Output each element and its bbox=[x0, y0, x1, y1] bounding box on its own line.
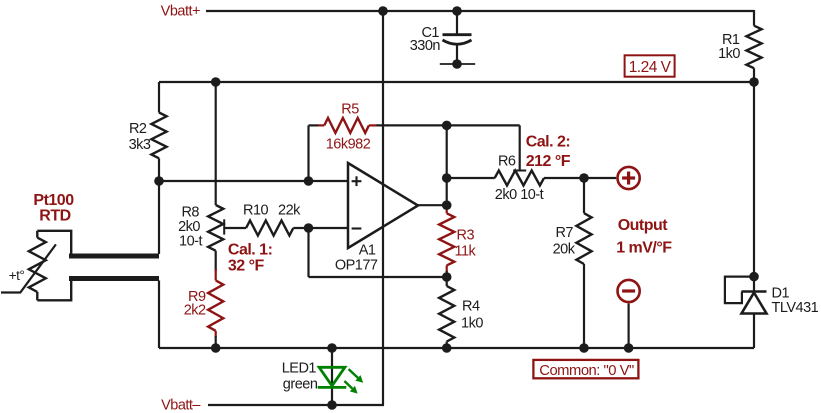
svg-text:1 mV/°F: 1 mV/°F bbox=[616, 239, 672, 256]
svg-text:32 °F: 32 °F bbox=[228, 257, 265, 274]
svg-text:R3: R3 bbox=[457, 228, 475, 244]
svg-text:3k3: 3k3 bbox=[129, 137, 151, 153]
svg-text:10-t: 10-t bbox=[179, 234, 202, 250]
svg-text:1k0: 1k0 bbox=[461, 316, 483, 332]
svg-text:Vbatt+: Vbatt+ bbox=[161, 4, 200, 20]
svg-text:R2: R2 bbox=[129, 121, 147, 137]
svg-text:Cal. 1:: Cal. 1: bbox=[228, 241, 273, 258]
svg-text:RTD: RTD bbox=[39, 208, 70, 225]
svg-text:Cal. 2:: Cal. 2: bbox=[526, 133, 571, 150]
svg-text:1.24 V: 1.24 V bbox=[629, 59, 672, 76]
svg-text:22k: 22k bbox=[278, 203, 301, 219]
svg-text:R6: R6 bbox=[498, 153, 516, 169]
svg-text:16k982: 16k982 bbox=[326, 137, 371, 153]
svg-text:2k2: 2k2 bbox=[184, 303, 206, 319]
svg-text:2k0 10-t: 2k0 10-t bbox=[495, 187, 544, 203]
svg-text:11k: 11k bbox=[455, 244, 477, 260]
svg-text:TLV431: TLV431 bbox=[772, 300, 819, 316]
svg-text:1k0: 1k0 bbox=[718, 46, 740, 62]
svg-text:R5: R5 bbox=[341, 102, 359, 118]
svg-text:R7: R7 bbox=[555, 225, 573, 241]
svg-text:Common: "0 V": Common: "0 V" bbox=[539, 363, 634, 379]
svg-text:+t°: +t° bbox=[9, 268, 25, 283]
svg-text:OP177: OP177 bbox=[335, 257, 378, 273]
svg-text:Output: Output bbox=[618, 217, 669, 234]
svg-text:A1: A1 bbox=[359, 243, 376, 259]
svg-text:20k: 20k bbox=[553, 242, 576, 258]
svg-text:LED1: LED1 bbox=[282, 361, 317, 377]
svg-text:R4: R4 bbox=[462, 299, 480, 315]
svg-text:212 °F: 212 °F bbox=[526, 153, 571, 170]
svg-text:330n: 330n bbox=[410, 38, 441, 54]
svg-text:green: green bbox=[283, 376, 318, 392]
svg-text:R10: R10 bbox=[243, 203, 269, 219]
svg-text:Vbatt–: Vbatt– bbox=[161, 398, 201, 413]
